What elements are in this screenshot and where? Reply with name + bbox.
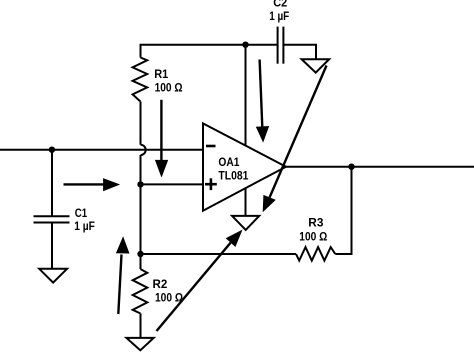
wire output (286, 166, 474, 168)
op-amp U1 OA1 TL081 (203, 123, 286, 210)
annotation arrow long diagonal (to op-amp ground from top right) (263, 66, 327, 213)
svg-text:1 µF: 1 µF (269, 9, 289, 23)
wire V- pin (245, 186, 247, 216)
wire C2 to ground (284, 45, 316, 60)
wire output down to R3 (335, 167, 351, 254)
svg-text:R2: R2 (153, 277, 168, 291)
svg-text:1 µF: 1 µF (74, 219, 95, 233)
wire feedback to R3 (141, 253, 297, 255)
annotation arrow down (at inverting input) (155, 100, 168, 178)
resistor R2 (133, 269, 148, 313)
annotation arrow diagonal up-right (to op-amp ground from bottom left) (157, 230, 243, 331)
ground (op-amp V-) (232, 216, 259, 230)
ground (C1) (39, 269, 67, 283)
node dot feedback (137, 251, 143, 257)
wire R1 to hop (140, 102, 142, 145)
svg-text:R3: R3 (308, 216, 323, 230)
wire hop to R2 (140, 155, 142, 269)
resistor R1 (133, 58, 148, 102)
node dot output/R3 (348, 164, 354, 170)
wire R2 to ground (140, 314, 142, 339)
wire top rail (141, 45, 277, 58)
wire to non-inverting input (141, 183, 204, 185)
svg-text:R1: R1 (154, 67, 168, 81)
node dot R1/R2/+input (137, 181, 143, 187)
capacitor C2 plates (277, 27, 279, 64)
annotation arrow down (at V+ pin) (256, 60, 269, 143)
resistor R3 (296, 247, 335, 261)
svg-text:OA1: OA1 (218, 155, 239, 169)
op-amp plus input symbol (205, 178, 217, 190)
svg-text:TL081: TL081 (218, 169, 248, 183)
wire C1 bottom lead (51, 223, 53, 270)
annotation arrow right (at +input node) (64, 178, 121, 191)
svg-text:100 Ω: 100 Ω (155, 290, 183, 304)
op-amp minus input symbol (206, 145, 216, 148)
wire input (left, to inverting input) (0, 149, 203, 151)
node dot input/C1 (49, 147, 55, 153)
ground (C2) (302, 59, 330, 72)
annotation arrow up (at R2 branch) (116, 236, 130, 314)
svg-text:100 Ω: 100 Ω (299, 230, 327, 244)
wire C1 top lead (51, 150, 53, 216)
capacitor C1 (34, 216, 70, 222)
ground (R2) (126, 338, 153, 350)
wire hop over input wire (141, 145, 146, 155)
wire V+ pin (245, 45, 247, 150)
node dot top rail/V+ (242, 42, 248, 48)
svg-text:100 Ω: 100 Ω (155, 80, 183, 94)
